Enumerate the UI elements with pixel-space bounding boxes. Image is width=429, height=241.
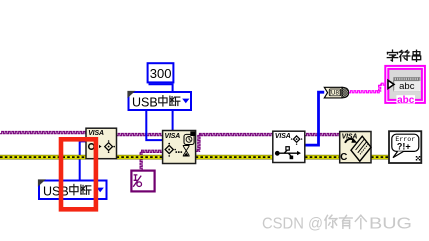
- annotation: red highlight rectangle: [61, 139, 96, 209]
- node U5: Simple Error Handler: [389, 131, 421, 163]
- constant: ring constant USB中断 (lower, event type for Enable Event): [38, 179, 107, 199]
- svg-text:[U8]: [U8]: [329, 90, 341, 97]
- wire: VISA resource wire (USB node out to VISA Close): [305, 134, 340, 136]
- wire: error cluster wire, Wait on Event to USB node: [196, 155, 273, 160]
- svg-text:?!+: ?!+: [397, 141, 411, 151]
- node U2: VISA Wait on Event: [163, 131, 196, 164]
- svg-text:CSDN @: CSDN @: [262, 215, 323, 232]
- wire: string wire (pink) from Byte-Array-To-String to 字符串 indicator: [349, 83, 386, 93]
- wire: VISA resource wire (Wait on Event out to USB interrupt node): [196, 134, 273, 152]
- svg-text:VISA: VISA: [275, 133, 291, 140]
- label: 字符串 (string indicator label): [387, 50, 397, 61]
- svg-text:VISA: VISA: [165, 133, 181, 140]
- constant: ring constant USB中断 (upper, event type for Wait on Event): [127, 91, 191, 110]
- wire: ring wire from lower USB中断 constant to VISA Enable Event: [80, 141, 86, 179]
- wire: error cluster wire, left edge to Enable Event: [0, 155, 86, 160]
- node U1: VISA Enable Event: [86, 128, 117, 159]
- node U3: VISA Get USB Interrupt Data: [273, 131, 305, 162]
- svg-text:abc: abc: [397, 95, 415, 106]
- node U4: VISA Close: [340, 132, 371, 164]
- svg-text:USB: USB: [132, 95, 158, 109]
- constant: VISA resource name I/O constant: [131, 171, 154, 192]
- svg-text:USB: USB: [43, 184, 69, 198]
- wire: byte-array wire from USB node to Byte-Array-To-String (thick blue): [305, 92, 324, 145]
- svg-text:VISA: VISA: [88, 130, 104, 137]
- watermark: CSDN @你有个BUG: [262, 215, 412, 232]
- wire: error cluster wire, VISA Close to Simple Error Handler: [371, 155, 389, 160]
- wire: VISA resource wire (Enable Event out to Wait on Event in): [117, 134, 163, 136]
- wire: error cluster wire, USB node to VISA Close: [305, 155, 340, 160]
- svg-text:abc: abc: [399, 81, 415, 92]
- wire: VISA resource wire from I/O constant to Wait on Event: [140, 150, 163, 170]
- constant: numeric constant 300: [148, 63, 174, 82]
- wire: VISA resource name wire (purple, left edge to VISA Enable Event): [0, 132, 86, 134]
- wire: ring wire from upper USB中断 constant to Wait on Event event type: [146, 111, 162, 141]
- wire: error cluster wire, Enable Event to Wait on Event: [117, 155, 163, 160]
- svg-text:BUG: BUG: [369, 215, 412, 232]
- svg-text:C: C: [340, 152, 347, 163]
- svg-text:300: 300: [150, 66, 172, 81]
- wire: numeric wire from constant 300 to Wait on Event timeout: [149, 84, 173, 131]
